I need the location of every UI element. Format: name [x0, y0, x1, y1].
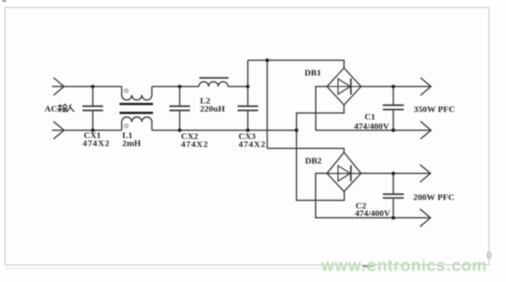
svg-text:AC: AC [45, 104, 58, 114]
svg-text:C1: C1 [365, 112, 376, 122]
svg-text:474X2: 474X2 [181, 139, 208, 149]
svg-text:DB2: DB2 [305, 155, 322, 165]
svg-text:474X2: 474X2 [83, 138, 110, 148]
svg-text:200W PFC: 200W PFC [413, 192, 454, 202]
svg-text:www.entronics.com: www.entronics.com [321, 256, 488, 275]
svg-text:DB1: DB1 [305, 68, 322, 78]
svg-text:474/400V: 474/400V [354, 121, 390, 131]
svg-text:2mH: 2mH [122, 138, 141, 148]
svg-text:474X2: 474X2 [239, 139, 266, 149]
svg-text:474/400V: 474/400V [355, 208, 391, 218]
svg-text:220uH: 220uH [200, 103, 225, 113]
svg-text:350W PFC: 350W PFC [414, 104, 455, 114]
